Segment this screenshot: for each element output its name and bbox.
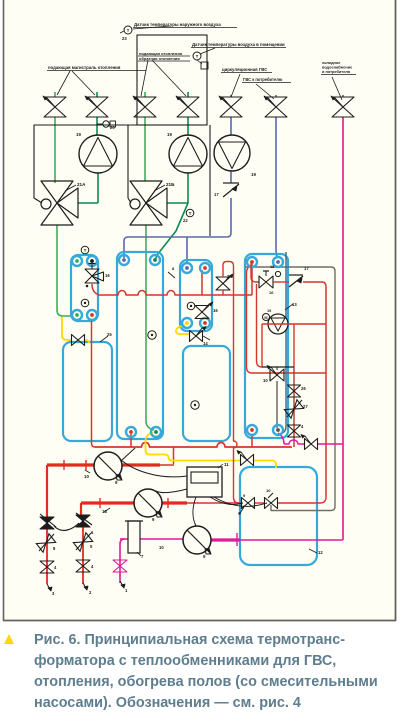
svg-text:10: 10 <box>266 488 271 493</box>
svg-text:Датчик температуры наружного в: Датчик температуры наружного воздуха <box>134 22 221 27</box>
svg-text:16: 16 <box>213 308 218 313</box>
svg-text:17: 17 <box>214 192 219 197</box>
svg-text:10: 10 <box>84 474 89 479</box>
svg-text:T: T <box>196 54 199 59</box>
svg-text:T: T <box>127 28 130 33</box>
svg-text:11: 11 <box>224 462 229 467</box>
svg-text:10: 10 <box>263 378 268 383</box>
svg-text:T: T <box>84 248 87 253</box>
svg-text:подающая магистраль отопления: подающая магистраль отопления <box>48 65 121 70</box>
svg-text:12: 12 <box>318 550 323 555</box>
svg-text:T: T <box>189 211 192 216</box>
svg-text:19: 19 <box>167 132 172 137</box>
svg-text:20: 20 <box>110 125 115 130</box>
svg-text:17: 17 <box>304 266 309 271</box>
svg-text:циркуляционная ГВС: циркуляционная ГВС <box>222 67 267 72</box>
svg-text:и потребителя: и потребителя <box>322 69 350 74</box>
svg-text:M: M <box>264 316 267 320</box>
svg-text:19: 19 <box>267 309 271 313</box>
svg-text:14: 14 <box>203 341 208 346</box>
svg-text:10: 10 <box>159 545 164 550</box>
svg-text:19: 19 <box>76 132 81 137</box>
svg-text:26: 26 <box>301 386 306 391</box>
svg-text:21А: 21А <box>77 182 86 187</box>
svg-text:ГВС к потребителю: ГВС к потребителю <box>243 77 283 82</box>
svg-text:22: 22 <box>183 218 188 223</box>
svg-text:Датчик температуры воздуха в п: Датчик температуры воздуха в помещении <box>192 42 285 47</box>
svg-text:19: 19 <box>251 172 256 177</box>
svg-text:24: 24 <box>227 274 232 279</box>
svg-text:27: 27 <box>303 404 308 409</box>
svg-text:13: 13 <box>292 302 297 307</box>
svg-text:16: 16 <box>105 273 110 278</box>
svg-text:21Б: 21Б <box>166 182 175 187</box>
svg-text:23: 23 <box>122 36 127 41</box>
svg-text:обратная отопления: обратная отопления <box>139 56 180 61</box>
svg-text:16: 16 <box>269 290 274 295</box>
